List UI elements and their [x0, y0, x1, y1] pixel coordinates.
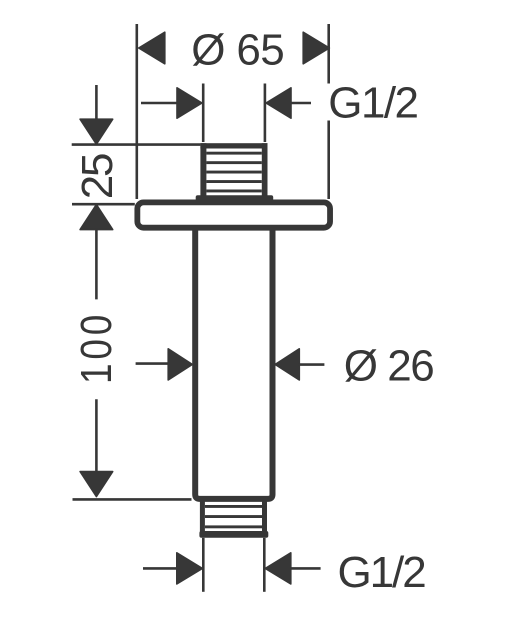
- svg-text:100: 100: [71, 315, 121, 384]
- svg-text:G1/2: G1/2: [328, 78, 419, 127]
- svg-text:Ø 65: Ø 65: [191, 26, 285, 75]
- svg-text:Ø 26: Ø 26: [344, 341, 435, 390]
- svg-text:25: 25: [73, 153, 122, 200]
- svg-text:G1/2: G1/2: [338, 548, 427, 597]
